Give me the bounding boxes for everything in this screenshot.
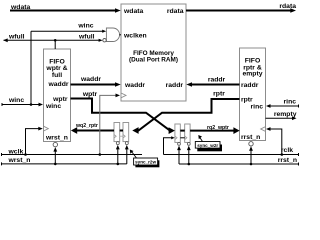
svg-text:rinc: rinc — [251, 104, 264, 111]
AND gate U_and (wclken = winc & ~wfull) — [103, 28, 121, 42]
svg-text:wdata: wdata — [123, 8, 143, 15]
svg-text:sync_w2r: sync_w2r — [197, 143, 218, 148]
svg-text:raddr: raddr — [166, 82, 184, 89]
svg-text:rdata: rdata — [279, 3, 296, 10]
wptr block wrst_n bubble — [53, 142, 57, 146]
wire wclk distribution to sync_r2w FF clocks — [120, 135, 123, 137]
wire wclk to RAM clock pin — [99, 94, 121, 156]
rptr block rrst_n bubble — [249, 142, 253, 146]
svg-text:empty: empty — [242, 71, 262, 78]
sync_r2w FF2 reset bubble — [125, 142, 128, 145]
wire wq2_rptr (sync_r2w output to wptr block) — [71, 123, 123, 134]
svg-text:rdata: rdata — [167, 8, 184, 15]
svg-text:winc: winc — [45, 103, 61, 110]
svg-text:wrst_n: wrst_n — [45, 135, 68, 142]
svg-text:rptr: rptr — [241, 97, 253, 104]
wire raddr bus rptr->mem — [186, 77, 239, 87]
FIFO Memory block U_mem — [121, 4, 186, 101]
wire rinc input — [266, 98, 299, 108]
wire rq2_wptr (sync_w2r output to rptr block) — [180, 125, 239, 134]
svg-text:waddr: waddr — [47, 81, 68, 88]
wire rrst_n to rptr block bubble — [249, 146, 253, 165]
svg-text:winc: winc — [77, 23, 93, 30]
svg-text:raddr: raddr — [208, 77, 226, 84]
sync_w2r FF2 reset bubble — [187, 143, 190, 146]
memory wclk triangle pin — [121, 93, 126, 98]
wire winc to AND gate — [31, 23, 106, 33]
sync_r2w flip-flop FF1 — [114, 123, 120, 142]
svg-text:wq2_rptr: wq2_rptr — [75, 123, 98, 129]
sync_w2r flip-flop FF1 — [175, 124, 180, 142]
svg-text:waddr: waddr — [80, 76, 101, 83]
svg-text:wptr: wptr — [82, 91, 98, 98]
wire wrst_n to sync_r2w FF resets — [116, 145, 129, 165]
wire wfull riser from wptr block top — [54, 39, 57, 49]
wire wrst_n to wptr block bubble — [53, 147, 57, 165]
wire rdata (output bus) — [186, 3, 296, 13]
svg-text:winc: winc — [8, 97, 24, 104]
wire winc input — [2, 97, 43, 106]
svg-text:wrst_n: wrst_n — [8, 157, 31, 164]
svg-text:wfull: wfull — [78, 34, 95, 41]
wire rempty output — [266, 111, 297, 120]
svg-text:rrst_n: rrst_n — [241, 134, 260, 141]
svg-text:rclk: rclk — [281, 147, 293, 154]
wire rrst_n to sync_w2r FF resets — [177, 146, 191, 166]
svg-text:rempty: rempty — [274, 111, 297, 118]
wptr block wclk triangle pin — [44, 126, 49, 131]
sync_r2w FF1 reset bubble — [116, 142, 119, 145]
svg-text:raddr: raddr — [241, 82, 259, 89]
wire wptr bus (to sync_w2r, crossing) — [71, 91, 175, 134]
svg-text:sync_r2w: sync_r2w — [135, 159, 156, 164]
svg-text:rptr: rptr — [213, 91, 225, 98]
wire wfull (output + feedback to gate) — [3, 34, 102, 43]
wire waddr bus wptr->mem — [71, 76, 121, 87]
FIFO rptr & empty block U_rptr — [240, 48, 266, 141]
svg-text:rrst_n: rrst_n — [278, 157, 297, 164]
sync_w2r label callout — [195, 135, 222, 151]
wire rclk to rptr block clock pin — [266, 127, 283, 156]
wire wclk input — [2, 149, 143, 157]
wire rclk distribution to sync_w2r FF clocks — [164, 136, 185, 154]
svg-text:wptr: wptr — [52, 96, 68, 103]
svg-text:full: full — [52, 72, 62, 79]
sync_r2w label callout — [130, 150, 160, 168]
sync_w2r FF1 reset bubble — [178, 143, 181, 146]
sync_w2r flip-flop FF2 — [185, 124, 190, 142]
svg-text:wfull: wfull — [8, 34, 25, 41]
FIFO wptr & full block U_wptr — [44, 49, 71, 142]
svg-text:(Dual Port RAM): (Dual Port RAM) — [129, 57, 178, 64]
wire wdata (input bus) — [10, 4, 121, 13]
svg-text:rinc: rinc — [284, 98, 297, 105]
sync_r2w flip-flop FF2 — [123, 123, 129, 142]
wire wclk to wptr block clock pin — [24, 127, 43, 156]
svg-text:wclken: wclken — [123, 32, 147, 39]
wire wrst_n input — [2, 157, 127, 165]
wire rclk input — [164, 147, 299, 156]
rptr block rclk triangle pin — [261, 127, 266, 132]
wire winc riser to gate — [30, 31, 33, 106]
svg-text:waddr: waddr — [124, 82, 145, 89]
wire rrst_n input — [179, 157, 299, 166]
wire rptr bus (to sync_r2w, crossing) — [132, 91, 239, 134]
